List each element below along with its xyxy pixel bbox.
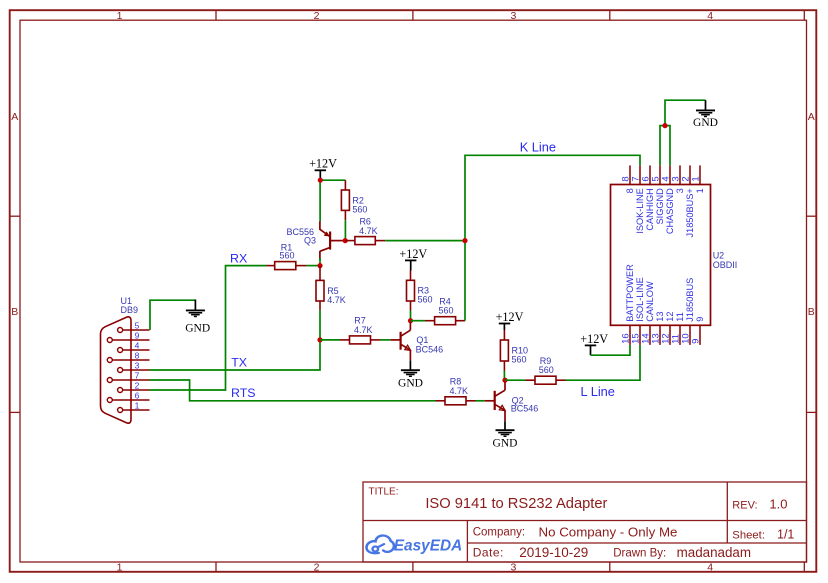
svg-text:Q3: Q3 — [304, 235, 316, 245]
U1 pin 6 — [107, 390, 149, 402]
U1 pin 1 — [118, 400, 150, 412]
svg-text:2: 2 — [314, 562, 320, 574]
svg-text:1/1: 1/1 — [777, 527, 794, 541]
wire TX node to R7 — [320, 339, 340, 341]
power flag +12V P3 — [496, 310, 524, 330]
svg-text:3: 3 — [510, 562, 516, 574]
title block Sheet — [732, 527, 794, 541]
transistor Q2 BC546 (NPN) — [485, 382, 539, 421]
resistor R5 — [316, 266, 346, 311]
wire RTS net — [150, 380, 436, 401]
svg-text:8: 8 — [135, 350, 140, 360]
svg-text:9: 9 — [690, 339, 701, 344]
ground symbol GND3 (Q2 emitter) — [493, 421, 518, 449]
svg-text:BC546: BC546 — [511, 404, 539, 414]
svg-text:Drawn By:: Drawn By: — [613, 548, 666, 560]
svg-text:Company:: Company: — [473, 527, 525, 539]
svg-text:BATTPOWER: BATTPOWER — [625, 264, 635, 322]
svg-text:13: 13 — [655, 311, 665, 321]
svg-text:B: B — [808, 306, 815, 318]
junction dot P1 — [318, 178, 323, 183]
wire R3 bottom to collector node — [410, 311, 412, 321]
wire R7 to Q1 base — [380, 339, 391, 341]
svg-text:5: 5 — [135, 320, 140, 330]
resistor R8 — [436, 377, 476, 405]
svg-text:4.7K: 4.7K — [327, 295, 346, 305]
junction dot R10 / R9 / Q2 collector — [502, 378, 507, 383]
svg-text:ISO 9141 to RS232 Adapter: ISO 9141 to RS232 Adapter — [425, 496, 607, 512]
resistor R7 — [340, 316, 380, 344]
U2 top pin names — [625, 188, 705, 238]
svg-text:ISOK-LINE: ISOK-LINE — [635, 188, 645, 233]
net label L Line — [581, 384, 615, 399]
connector U2 OBDII box — [611, 185, 711, 326]
svg-text:3: 3 — [510, 10, 516, 22]
svg-text:1: 1 — [695, 188, 705, 193]
svg-text:4: 4 — [135, 340, 140, 350]
svg-text:J1850BUS+: J1850BUS+ — [685, 188, 695, 237]
svg-text:560: 560 — [418, 295, 433, 305]
svg-text:A: A — [808, 111, 815, 123]
resistor R4 — [425, 296, 465, 324]
ruler ticks right — [807, 216, 817, 412]
wire R6 right to K-line vertical — [385, 240, 465, 242]
svg-text:7: 7 — [135, 370, 140, 380]
svg-text:Sheet:: Sheet: — [732, 529, 765, 541]
svg-text:1: 1 — [117, 562, 123, 574]
title block lines — [363, 482, 807, 562]
resistor R9 — [526, 356, 566, 384]
U1 pin 8 — [107, 350, 149, 362]
transistor Q3 BC556 (PNP) — [286, 221, 344, 260]
wire pin5 to GND — [150, 300, 195, 330]
svg-text:GND: GND — [493, 437, 518, 449]
wire K Line — [465, 155, 640, 320]
svg-text:560: 560 — [438, 306, 453, 316]
wire RX net — [150, 266, 321, 390]
wire L node to R9 — [505, 379, 526, 381]
svg-text:No Company - Only Me: No Company - Only Me — [539, 524, 678, 539]
svg-text:4: 4 — [707, 10, 713, 22]
U2 top pin numbers — [620, 176, 701, 181]
resistor R6 — [345, 217, 385, 245]
wire R8 to Q2 base — [476, 400, 485, 402]
ground symbol GND2 (Q1 emitter) — [398, 360, 423, 389]
ground symbol GND1 (near DB9) — [185, 300, 210, 335]
svg-text:EasyEDA: EasyEDA — [394, 538, 462, 555]
svg-text:9: 9 — [135, 330, 140, 340]
svg-text:560: 560 — [539, 365, 554, 375]
connector U1 DB9 outline — [101, 317, 132, 423]
junction dot RX / R1 / Q3 collector / R5 — [317, 263, 322, 268]
U1 label — [121, 296, 139, 315]
ruler letters right — [808, 111, 815, 318]
svg-text:2: 2 — [314, 10, 320, 22]
U1 pin 4 — [118, 340, 150, 352]
svg-text:madanadam: madanadam — [677, 545, 751, 560]
resistor R2 — [341, 180, 367, 220]
svg-text:4.7K: 4.7K — [354, 325, 373, 335]
svg-text:+12V: +12V — [309, 157, 337, 171]
net label RTS — [231, 386, 256, 400]
junction dot R6 / K line — [462, 238, 467, 243]
resistor R1 — [266, 242, 306, 269]
svg-text:CHASGND: CHASGND — [665, 188, 675, 234]
junction dot R5 / R7 / TX — [317, 337, 322, 342]
U2 bottom pin numbers — [620, 333, 701, 344]
ruler ticks top — [216, 10, 804, 21]
junction dot Q3 base / R2 / R6 — [343, 238, 348, 243]
net label K Line — [520, 140, 556, 155]
svg-text:2019-10-29: 2019-10-29 — [519, 545, 588, 560]
svg-text:1.0: 1.0 — [769, 496, 787, 511]
junction dot R3 / R4 / Q1 collector — [408, 318, 413, 323]
svg-text:560: 560 — [279, 251, 294, 261]
ruler letters left — [11, 111, 18, 318]
svg-text:12: 12 — [665, 311, 675, 321]
resistor R10 — [500, 330, 528, 371]
svg-text:1: 1 — [690, 176, 701, 181]
svg-text:+12V: +12V — [496, 310, 524, 324]
wire R2 bottom to base node — [344, 220, 346, 240]
wire L Line to U2 pin15 — [566, 345, 641, 380]
svg-text:L Line: L Line — [581, 384, 615, 399]
power flag +12V P1 — [309, 157, 337, 178]
svg-text:6: 6 — [135, 390, 140, 400]
ruler numbers bottom — [117, 562, 714, 574]
power flag +12V P2 — [399, 247, 427, 271]
svg-text:TITLE:: TITLE: — [369, 487, 399, 498]
U2 bottom pin stubs — [630, 325, 700, 345]
EasyEDA logo — [367, 536, 463, 555]
svg-text:3: 3 — [675, 188, 685, 193]
U1 pin 5 — [118, 320, 150, 332]
U1 pin 3 — [118, 360, 150, 372]
U1 pin 9 — [107, 330, 149, 342]
ground symbol GND4 (U2 top) — [693, 100, 718, 129]
svg-text:ISOL-LINE: ISOL-LINE — [635, 277, 645, 321]
svg-text:K Line: K Line — [520, 140, 556, 155]
svg-text:11: 11 — [675, 312, 685, 322]
svg-text:RX: RX — [230, 252, 247, 266]
ruler ticks bottom — [216, 562, 804, 572]
wire +12V P4 to U2 pin16 — [591, 345, 631, 355]
wire collector node to R4 — [411, 320, 426, 322]
ruler ticks left — [10, 216, 20, 412]
title block title — [425, 496, 607, 512]
svg-text:REV:: REV: — [732, 499, 757, 511]
svg-text:+12V: +12V — [580, 332, 608, 346]
svg-text:560: 560 — [352, 204, 367, 214]
wire R10 bottom to L node — [503, 371, 505, 381]
svg-text:CANLOW: CANLOW — [645, 281, 655, 322]
svg-text:J1850BUS: J1850BUS — [685, 278, 695, 322]
svg-text:SIGGND: SIGGND — [655, 188, 665, 225]
svg-text:4.7K: 4.7K — [359, 226, 378, 236]
U2 bottom pin names — [625, 264, 705, 322]
transistor Q1 BC546 (NPN) — [391, 322, 444, 360]
U2 top pin stubs — [630, 165, 700, 184]
svg-text:GND: GND — [693, 117, 718, 129]
svg-text:GND: GND — [185, 323, 210, 335]
resistor R3 — [407, 271, 433, 311]
svg-text:560: 560 — [512, 354, 527, 364]
power flag +12V P4 — [580, 332, 608, 355]
svg-text:8: 8 — [625, 188, 635, 193]
wire U2 SIGGND/CHASGND to GND — [660, 100, 706, 165]
U1 pin 2 — [118, 380, 150, 392]
svg-text:4.7K: 4.7K — [450, 386, 469, 396]
U2 label — [713, 251, 738, 271]
svg-text:+12V: +12V — [399, 247, 427, 261]
svg-text:1: 1 — [135, 400, 140, 410]
svg-text:A: A — [11, 111, 18, 123]
net label TX — [231, 356, 247, 370]
junction dot U2 ground node — [662, 123, 667, 128]
U1 pin 7 — [107, 370, 149, 382]
svg-text:BC546: BC546 — [416, 344, 444, 354]
svg-text:U2: U2 — [713, 251, 725, 261]
svg-text:DB9: DB9 — [121, 305, 139, 315]
svg-text:Date:: Date: — [473, 546, 504, 560]
svg-text:OBDII: OBDII — [713, 260, 738, 270]
svg-text:2: 2 — [135, 380, 140, 390]
svg-text:3: 3 — [135, 360, 140, 370]
wire Q3 collector to RX node — [319, 258, 321, 266]
svg-text:B: B — [11, 306, 18, 318]
svg-text:1: 1 — [117, 10, 123, 22]
svg-text:9: 9 — [695, 317, 705, 322]
wire +12V P1 node — [320, 180, 345, 221]
svg-text:TX: TX — [231, 356, 247, 370]
svg-text:CANHIGH: CANHIGH — [645, 188, 655, 230]
svg-text:GND: GND — [398, 377, 423, 389]
svg-text:4: 4 — [707, 562, 713, 574]
title block text TITLE: — [369, 487, 399, 498]
net label RX — [230, 252, 247, 266]
wire TX net — [150, 340, 321, 370]
title block REV — [732, 496, 787, 511]
wire R5 bottom to TX node — [319, 310, 321, 340]
title block Date row — [473, 545, 751, 560]
ruler numbers top — [117, 10, 714, 22]
title block Company row — [473, 524, 678, 539]
svg-text:RTS: RTS — [231, 386, 256, 400]
